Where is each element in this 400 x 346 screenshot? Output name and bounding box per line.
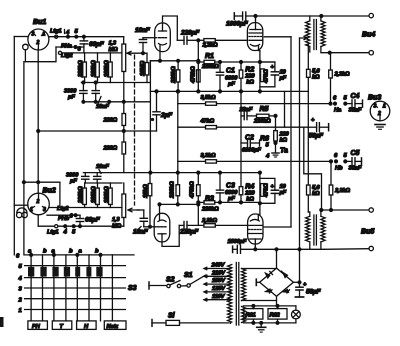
wire Ltg2 drop ch2 <box>59 182 61 207</box>
node 5 <box>75 35 78 38</box>
lamp pilot <box>292 306 301 323</box>
heater rail bottom <box>243 322 296 324</box>
svg-text:kΩ: kΩ <box>246 80 254 86</box>
svg-text:kΩ: kΩ <box>246 197 254 203</box>
scan artifact bar left edge <box>0 317 4 327</box>
capacitor 220pF coupling ch2 <box>179 222 204 236</box>
svg-text:110V: 110V <box>212 294 226 300</box>
svg-text:68pF: 68pF <box>89 41 105 48</box>
resistor 220R cathode b <box>103 126 126 173</box>
svg-text:10nF: 10nF <box>133 229 149 236</box>
wire HT bottom to bridge <box>242 300 277 302</box>
resistor 100k input divider ch2 b <box>104 183 112 208</box>
potentiometer 1.3M volume ch2 <box>112 183 139 230</box>
wire tube4 screen stub <box>264 226 291 228</box>
switch S1 voltage selector <box>184 272 206 287</box>
svg-text:Bu3: Bu3 <box>368 95 381 102</box>
wire mains row y=285.5 <box>149 285 167 287</box>
wire cathode ch2 <box>159 204 161 213</box>
rectifier bridge <box>256 248 301 306</box>
svg-text:Ltg2: Ltg2 <box>61 53 73 59</box>
ground below Bu3 <box>375 125 385 130</box>
wire jog to Bu5 row <box>304 127 322 210</box>
svg-text:PH: PH <box>32 324 41 330</box>
wire mid vertical x=177.8 <box>177 91 179 172</box>
wire bus vertical x=291 <box>290 37 292 227</box>
resistor R6 220k vertical <box>260 116 290 144</box>
transformer Tr3 HT secondary <box>242 269 246 301</box>
node Bu4 terminal bottom <box>369 51 373 55</box>
wire B+ rail y=249.3 <box>241 248 325 250</box>
svg-text:220kΩ: 220kΩ <box>171 66 177 84</box>
capacitor 3300pF ch1 <box>64 83 87 102</box>
switch S3 row numbers <box>16 254 23 315</box>
svg-text:PHb: PHb <box>58 216 70 222</box>
switch S3 top nodes a b <box>28 249 102 257</box>
wire input row Ltg2 y=52.9 <box>60 52 122 54</box>
resistor R62 <box>268 305 287 325</box>
wire grid row into tube ch1 <box>143 37 155 39</box>
node 6 top <box>74 46 77 49</box>
svg-text:33nF: 33nF <box>349 108 362 114</box>
svg-text:470kΩ: 470kΩ <box>191 66 197 84</box>
capacitor C4 33nF headphone <box>333 93 363 114</box>
switch S3 matrix rows <box>25 255 134 310</box>
svg-text:100kΩ: 100kΩ <box>91 186 97 203</box>
resistor 10M grid leak ch1 <box>140 53 149 82</box>
transformer Tr3 heater secondary <box>242 307 246 323</box>
svg-text:S2: S2 <box>166 277 175 284</box>
tube V2 output pentode ch1 <box>247 20 262 51</box>
wire wiper row ch1 <box>142 52 145 55</box>
capacitor C3 6800pF <box>216 183 238 204</box>
svg-text:220Ω: 220Ω <box>103 118 118 124</box>
svg-text:1: 1 <box>30 207 33 213</box>
wire tube2 cathode <box>259 51 260 63</box>
resistor 2.2k grid stopper ch2 <box>201 218 247 227</box>
svg-text:1: 1 <box>383 103 386 109</box>
node Bu5 terminal top <box>369 208 373 212</box>
cathode network loop ch1 with 470R and 10uF <box>260 62 287 91</box>
wire grid row into tube ch2 <box>144 226 154 228</box>
svg-text:Ta: Ta <box>280 148 288 155</box>
svg-text:10kΩ: 10kΩ <box>143 184 149 198</box>
svg-text:Bu5: Bu5 <box>361 229 374 236</box>
resistor R2 220k <box>239 61 255 92</box>
transformer Tr2 output ch2 <box>306 210 326 249</box>
svg-text:C2: C2 <box>245 135 254 142</box>
svg-text:µF: µF <box>279 76 287 82</box>
capacitor 2uF <box>152 90 174 131</box>
capacitor 22nF tone <box>239 107 253 120</box>
svg-text:10nF: 10nF <box>96 104 109 110</box>
svg-text:1000pF: 1000pF <box>226 21 249 28</box>
svg-text:2: 2 <box>36 199 40 205</box>
voltage taps <box>204 263 231 301</box>
svg-text:R61: R61 <box>246 313 256 319</box>
svg-text:2,2kΩ: 2,2kΩ <box>334 72 350 78</box>
capacitor 10nF ch2 shunt <box>94 164 110 183</box>
svg-text:C5: C5 <box>351 150 360 157</box>
connector Bu3 <box>368 95 390 121</box>
wire Bu1 left pin to left bus <box>14 36 28 38</box>
tape icon at Bu2 <box>17 208 28 218</box>
wire bus vertical x=284.5 <box>284 91 286 127</box>
svg-text:R62: R62 <box>270 313 281 319</box>
svg-text:2µF: 2µF <box>160 112 173 119</box>
capacitor C5 33nF headphone <box>334 150 362 172</box>
wire mic bus vertical x=23.9 <box>24 50 26 62</box>
wire x=198.3 vertical ch1 <box>197 40 199 91</box>
wire mid vertical x=220 ch2 segment <box>219 173 221 191</box>
svg-text:470Ω: 470Ω <box>264 183 270 198</box>
wire row y=182.2 over Bu2 <box>24 181 60 183</box>
svg-text:6800pF: 6800pF <box>242 148 261 154</box>
resistor 2.2k grid stopper ch1 <box>198 39 247 49</box>
wire ground bus ch1 y=91.4 <box>150 90 308 92</box>
node Bu4 terminal top <box>369 13 373 17</box>
wire tube2 screen stub <box>264 36 291 38</box>
svg-text:220kΩ: 220kΩ <box>253 119 271 125</box>
svg-text:100kΩ: 100kΩ <box>104 186 110 203</box>
svg-text:Ha: Ha <box>334 108 342 114</box>
svg-text:Ltg1: Ltg1 <box>47 230 58 236</box>
resistor 470k ch2 <box>190 173 201 226</box>
wire input row PHa y=47 <box>56 46 84 48</box>
resistor R4 220k <box>239 184 255 204</box>
capacitor C2 6800pF <box>241 135 270 154</box>
resistor 10M grid leak ch2 <box>143 173 152 227</box>
svg-text:2,2kΩ: 2,2kΩ <box>201 218 217 224</box>
resistor R61 <box>244 305 263 325</box>
wire screen tap arrow into Tr1 <box>300 36 308 39</box>
svg-text:33nF: 33nF <box>349 166 362 172</box>
capacitor C1 6800pF <box>216 61 238 92</box>
svg-text:220Ω: 220Ω <box>103 146 118 152</box>
svg-text:kΩ: kΩ <box>312 191 320 197</box>
wire line y=181.8 ch2 <box>85 182 122 184</box>
wire Bu2 left pin to left bus <box>14 204 28 206</box>
wire input row Ltg1 ch2 <box>38 225 124 227</box>
svg-text:100kΩ: 100kΩ <box>91 60 97 77</box>
svg-text:220V: 220V <box>211 270 226 276</box>
svg-text:R2: R2 <box>245 67 254 74</box>
svg-text:220kΩ: 220kΩ <box>201 64 219 70</box>
svg-text:pF: pF <box>227 196 235 202</box>
resistor 47k row <box>178 119 308 129</box>
svg-text:Bu4: Bu4 <box>362 32 375 39</box>
ground Ta node <box>265 141 288 160</box>
button T <box>52 321 72 330</box>
svg-text:220kΩ: 220kΩ <box>170 181 176 199</box>
wire anode top loop ch1 <box>163 16 178 40</box>
svg-text:220kΩ: 220kΩ <box>201 206 219 212</box>
svg-text:10nF: 10nF <box>135 27 151 34</box>
svg-text:kΩ: kΩ <box>280 138 288 144</box>
svg-text:1: 1 <box>43 32 46 38</box>
svg-text:2: 2 <box>36 40 40 46</box>
capacitor 3300pF ch2 <box>66 173 89 185</box>
wire wiper row ch2 <box>137 209 144 211</box>
svg-text:C4: C4 <box>351 93 360 100</box>
svg-text:Hb: Hb <box>335 166 343 172</box>
svg-text:100kΩ: 100kΩ <box>104 60 110 77</box>
svg-text:Netz: Netz <box>107 324 119 330</box>
wire cathode ch1 <box>150 51 160 61</box>
svg-text:240V: 240V <box>211 263 226 269</box>
capacitor 1000pF ch1 <box>226 12 249 28</box>
wire lower bus y=172.6 <box>83 172 260 174</box>
node 4 <box>67 35 70 38</box>
resistor 220k input divider ch2 <box>78 183 86 208</box>
fuse Si <box>152 313 229 327</box>
svg-text:Bu1: Bu1 <box>33 19 46 26</box>
switch S3 columns <box>31 255 112 321</box>
wire tube4 anode to B+ rail <box>254 246 256 249</box>
resistor 470k ch1 <box>191 59 201 84</box>
svg-text:3,3kΩ: 3,3kΩ <box>201 153 216 159</box>
svg-text:220pF: 220pF <box>180 30 200 37</box>
svg-text:3: 3 <box>32 32 35 38</box>
svg-text:10nF: 10nF <box>96 164 109 170</box>
resistor R5 220k <box>247 106 276 125</box>
capacitor 50uF reservoir <box>295 282 321 297</box>
resistor 100k input divider ch2 a <box>91 183 99 208</box>
wire 2uF to cathode junction y=131 <box>38 130 156 132</box>
svg-text:50µF: 50µF <box>309 133 325 140</box>
tube V1 triode ch1 <box>155 23 171 52</box>
resistor 5.6k feedback ch2 <box>307 185 321 212</box>
svg-text:220kΩ: 220kΩ <box>78 60 84 78</box>
resistor 3.5k row <box>178 95 331 105</box>
svg-text:pF: pF <box>67 95 75 101</box>
capacitor 68pF ch1 <box>80 37 105 53</box>
wire line y=82.5 left part <box>81 82 150 84</box>
svg-text:470Ω: 470Ω <box>264 69 270 84</box>
svg-text:220pF: 220pF <box>179 229 199 236</box>
resistor 220k anode ch2 <box>170 173 180 206</box>
wire Bu4 lower row y=52.7 <box>321 52 369 54</box>
wire bus vertical x=299.5 <box>299 38 301 287</box>
svg-text:MΩ: MΩ <box>109 47 119 53</box>
dashed gang link volume <box>134 55 136 205</box>
resistor R3 220k <box>197 195 260 212</box>
svg-text:pF: pF <box>69 179 77 185</box>
svg-text:Si: Si <box>168 313 176 320</box>
button Netz <box>104 321 126 330</box>
button H <box>77 321 97 330</box>
capacitor 220pF coupling ch1 <box>177 30 200 45</box>
svg-text:3: 3 <box>43 207 46 213</box>
svg-text:22nF: 22nF <box>239 107 253 113</box>
cathode network loop ch2 with 470R and 10uF <box>258 171 286 205</box>
resistor 5.6k feedback ch1 <box>307 45 321 185</box>
svg-text:C3: C3 <box>226 183 235 190</box>
heater rail top <box>243 305 296 307</box>
svg-text:150V: 150V <box>212 278 226 284</box>
capacitor 1000pF ch2 <box>228 239 247 253</box>
potentiometer 1.3M volume ch1 <box>109 41 148 114</box>
wire tube4 cathode up <box>258 203 260 214</box>
svg-text:125V: 125V <box>212 286 226 292</box>
svg-text:R4: R4 <box>245 184 254 191</box>
resistor 100k input divider ch1 b <box>104 53 112 83</box>
resistor 220k input divider ch1 <box>78 53 86 83</box>
resistor 3.3k row <box>178 153 331 163</box>
wire grid column ch1 x=143 <box>142 38 144 40</box>
switch S2 <box>166 277 187 288</box>
svg-text:1,3: 1,3 <box>109 41 117 47</box>
node junction 220R pair <box>122 130 125 133</box>
connector Bu1 <box>28 19 49 50</box>
svg-text:10MΩ: 10MΩ <box>140 60 146 76</box>
svg-text:2: 2 <box>377 111 381 117</box>
svg-text:1,3: 1,3 <box>112 217 120 223</box>
resistor 2.2k damping ch1 <box>329 53 350 104</box>
wire long vertical x=150.4 <box>149 61 151 173</box>
svg-text:S3: S3 <box>128 285 137 292</box>
svg-text:47kΩ: 47kΩ <box>200 119 215 125</box>
svg-text:C1: C1 <box>226 68 235 75</box>
svg-text:2,2kΩ: 2,2kΩ <box>334 188 350 194</box>
wire HT top to bridge <box>242 268 277 270</box>
button PH <box>28 321 48 330</box>
capacitor 10nF grid ch2 <box>133 210 149 236</box>
svg-text:R1: R1 <box>205 53 214 60</box>
wire Bu1 pin2 down x=38.2 <box>37 49 39 193</box>
wire Bu5 upper row y=210 <box>321 209 369 211</box>
svg-text:3: 3 <box>374 103 377 109</box>
svg-text:pF: pF <box>227 82 235 88</box>
resistor 2.2k damping ch2 <box>329 160 350 210</box>
svg-text:µF: µF <box>279 190 287 196</box>
ground heater circuit <box>257 322 266 333</box>
connector Bu2 <box>28 188 56 215</box>
transformer Tr1 output ch1 <box>306 16 326 53</box>
svg-text:Ltg1: Ltg1 <box>50 29 61 35</box>
wire input row PHb ch2 <box>47 214 80 216</box>
svg-text:220kΩ: 220kΩ <box>78 186 84 204</box>
capacitor 50uF mid <box>308 118 328 140</box>
svg-text:2,2kΩ: 2,2kΩ <box>202 43 218 49</box>
tube V3 triode ch2 <box>154 213 170 242</box>
svg-text:S1: S1 <box>184 272 193 279</box>
wire left bus vertical x=14.3 <box>13 37 15 255</box>
svg-text:kΩ: kΩ <box>312 75 320 81</box>
transformer Tr3 power <box>228 263 239 326</box>
microphone icon at Bu1 <box>23 44 28 50</box>
svg-text:3,5kΩ: 3,5kΩ <box>201 95 216 101</box>
capacitor 68pF ch2 <box>76 215 100 226</box>
svg-text:Bu2: Bu2 <box>43 188 56 195</box>
wire input row Ltg1 y=36.7 <box>49 36 124 38</box>
node Ltg1 open pin <box>55 35 58 38</box>
wire mid vertical x=241 lower <box>240 91 242 186</box>
svg-text:PHa: PHa <box>61 44 73 50</box>
svg-text:50µF: 50µF <box>306 289 322 296</box>
capacitor 10nF ch1 shunt <box>92 83 109 111</box>
svg-text:R5: R5 <box>260 106 269 113</box>
svg-text:470kΩ: 470kΩ <box>190 181 196 199</box>
resistor R1 220k <box>197 53 275 70</box>
wire anode bottom loop ch2 <box>162 225 179 246</box>
node Bu5 terminal bottom <box>369 246 373 250</box>
switch S3 contact bars <box>28 267 103 277</box>
wire top rail y=16 <box>246 15 369 17</box>
capacitor 10nF grid ch1 <box>135 27 151 53</box>
resistor 100k input divider ch1 a <box>91 53 99 83</box>
wire input row Ltg2 ch2 <box>49 207 122 209</box>
svg-text:1: 1 <box>19 308 22 314</box>
wire tube2 anode to top rail <box>255 16 257 20</box>
resistor 220R cathode a <box>103 114 126 126</box>
tube V4 output pentode ch2 <box>248 214 263 246</box>
svg-text:68pF: 68pF <box>85 217 101 224</box>
wire line y=102 <box>83 101 150 103</box>
resistor 220k anode ch1 <box>171 59 180 91</box>
